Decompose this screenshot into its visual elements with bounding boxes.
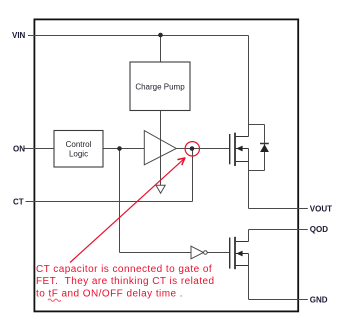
wire VIN vertical to FET drain: [248, 36, 250, 137]
svg-text:CT: CT: [13, 198, 24, 207]
Q1 channel bar: [234, 133, 236, 166]
node: gate node dot: [190, 146, 195, 151]
Q2 channel bar: [234, 237, 236, 269]
Q2 drain lead: [235, 241, 249, 243]
svg-text:GND: GND: [310, 295, 328, 304]
node: ON junction dot: [117, 146, 122, 151]
red annotation arrow: [70, 158, 185, 262]
Q1 body lead: [235, 148, 249, 150]
control logic block: [54, 131, 103, 168]
red annotation circle on gate node: [185, 142, 199, 156]
node: VIN junction dot: [158, 33, 163, 38]
svg-text:FET. They are thinking CT is: FET. They are thinking CT is related: [36, 276, 215, 287]
Q2 body arrow: [236, 251, 242, 257]
charge pump block: [130, 62, 190, 111]
svg-text:QOD: QOD: [310, 225, 328, 234]
svg-text:Control: Control: [66, 140, 92, 149]
wire control logic to driver: [103, 148, 144, 150]
wire CT line: [26, 201, 193, 203]
Q2 gate bar: [229, 238, 231, 269]
wire inverter output to Q2 gate: [207, 252, 230, 254]
Q2 body lead: [235, 253, 249, 255]
transistor Q2 QOD FET: [230, 237, 249, 269]
svg-text:Logic: Logic: [69, 150, 88, 159]
Q1 body arrow: [236, 146, 242, 152]
wire FET source vertical to VOUT: [248, 149, 250, 209]
wire CT vertical to gate node: [192, 149, 194, 202]
svg-text:CT capacitor is connected to g: CT capacitor is connected to gate of: [36, 264, 212, 275]
svg-text:VOUT: VOUT: [310, 204, 332, 213]
Q2 source lead: [235, 265, 249, 267]
wire diode branch bottom: [249, 170, 265, 172]
wire diode branch top: [249, 124, 265, 126]
wire Q2 source to GND: [249, 254, 308, 300]
IC outer box: [34, 19, 298, 311]
wire driver output to gate: [176, 148, 229, 150]
Q1 gate bar: [229, 134, 231, 164]
red squiggly underline under tF: [48, 299, 61, 301]
transistor Q1 main pass FET: [230, 133, 249, 166]
diode D1 body diode: [260, 143, 269, 145]
wire VIN rail: [28, 35, 249, 37]
Q1 source lead: [235, 161, 249, 163]
svg-text:to tF and ON/OFF delay time .: to tF and ON/OFF delay time .: [36, 289, 183, 300]
inverter U2: [191, 246, 204, 259]
Q1 drain lead: [235, 136, 249, 138]
wire ON node vertical down: [119, 149, 121, 253]
wire VOUT line: [249, 208, 308, 210]
svg-text:Charge Pump: Charge Pump: [135, 82, 185, 91]
wire Q2 drain to QOD: [249, 230, 308, 242]
wire to inverter input: [120, 252, 192, 254]
wire ON input: [25, 148, 55, 150]
op-amp U1 driver triangle: [144, 131, 176, 165]
wire VIN to charge pump: [160, 36, 162, 63]
svg-text:VIN: VIN: [12, 31, 26, 40]
svg-text:ON: ON: [13, 144, 25, 153]
hollow arrow down: [156, 185, 165, 193]
wire charge pump output through driver: [160, 111, 162, 186]
wire diode branch vertical: [264, 125, 266, 171]
